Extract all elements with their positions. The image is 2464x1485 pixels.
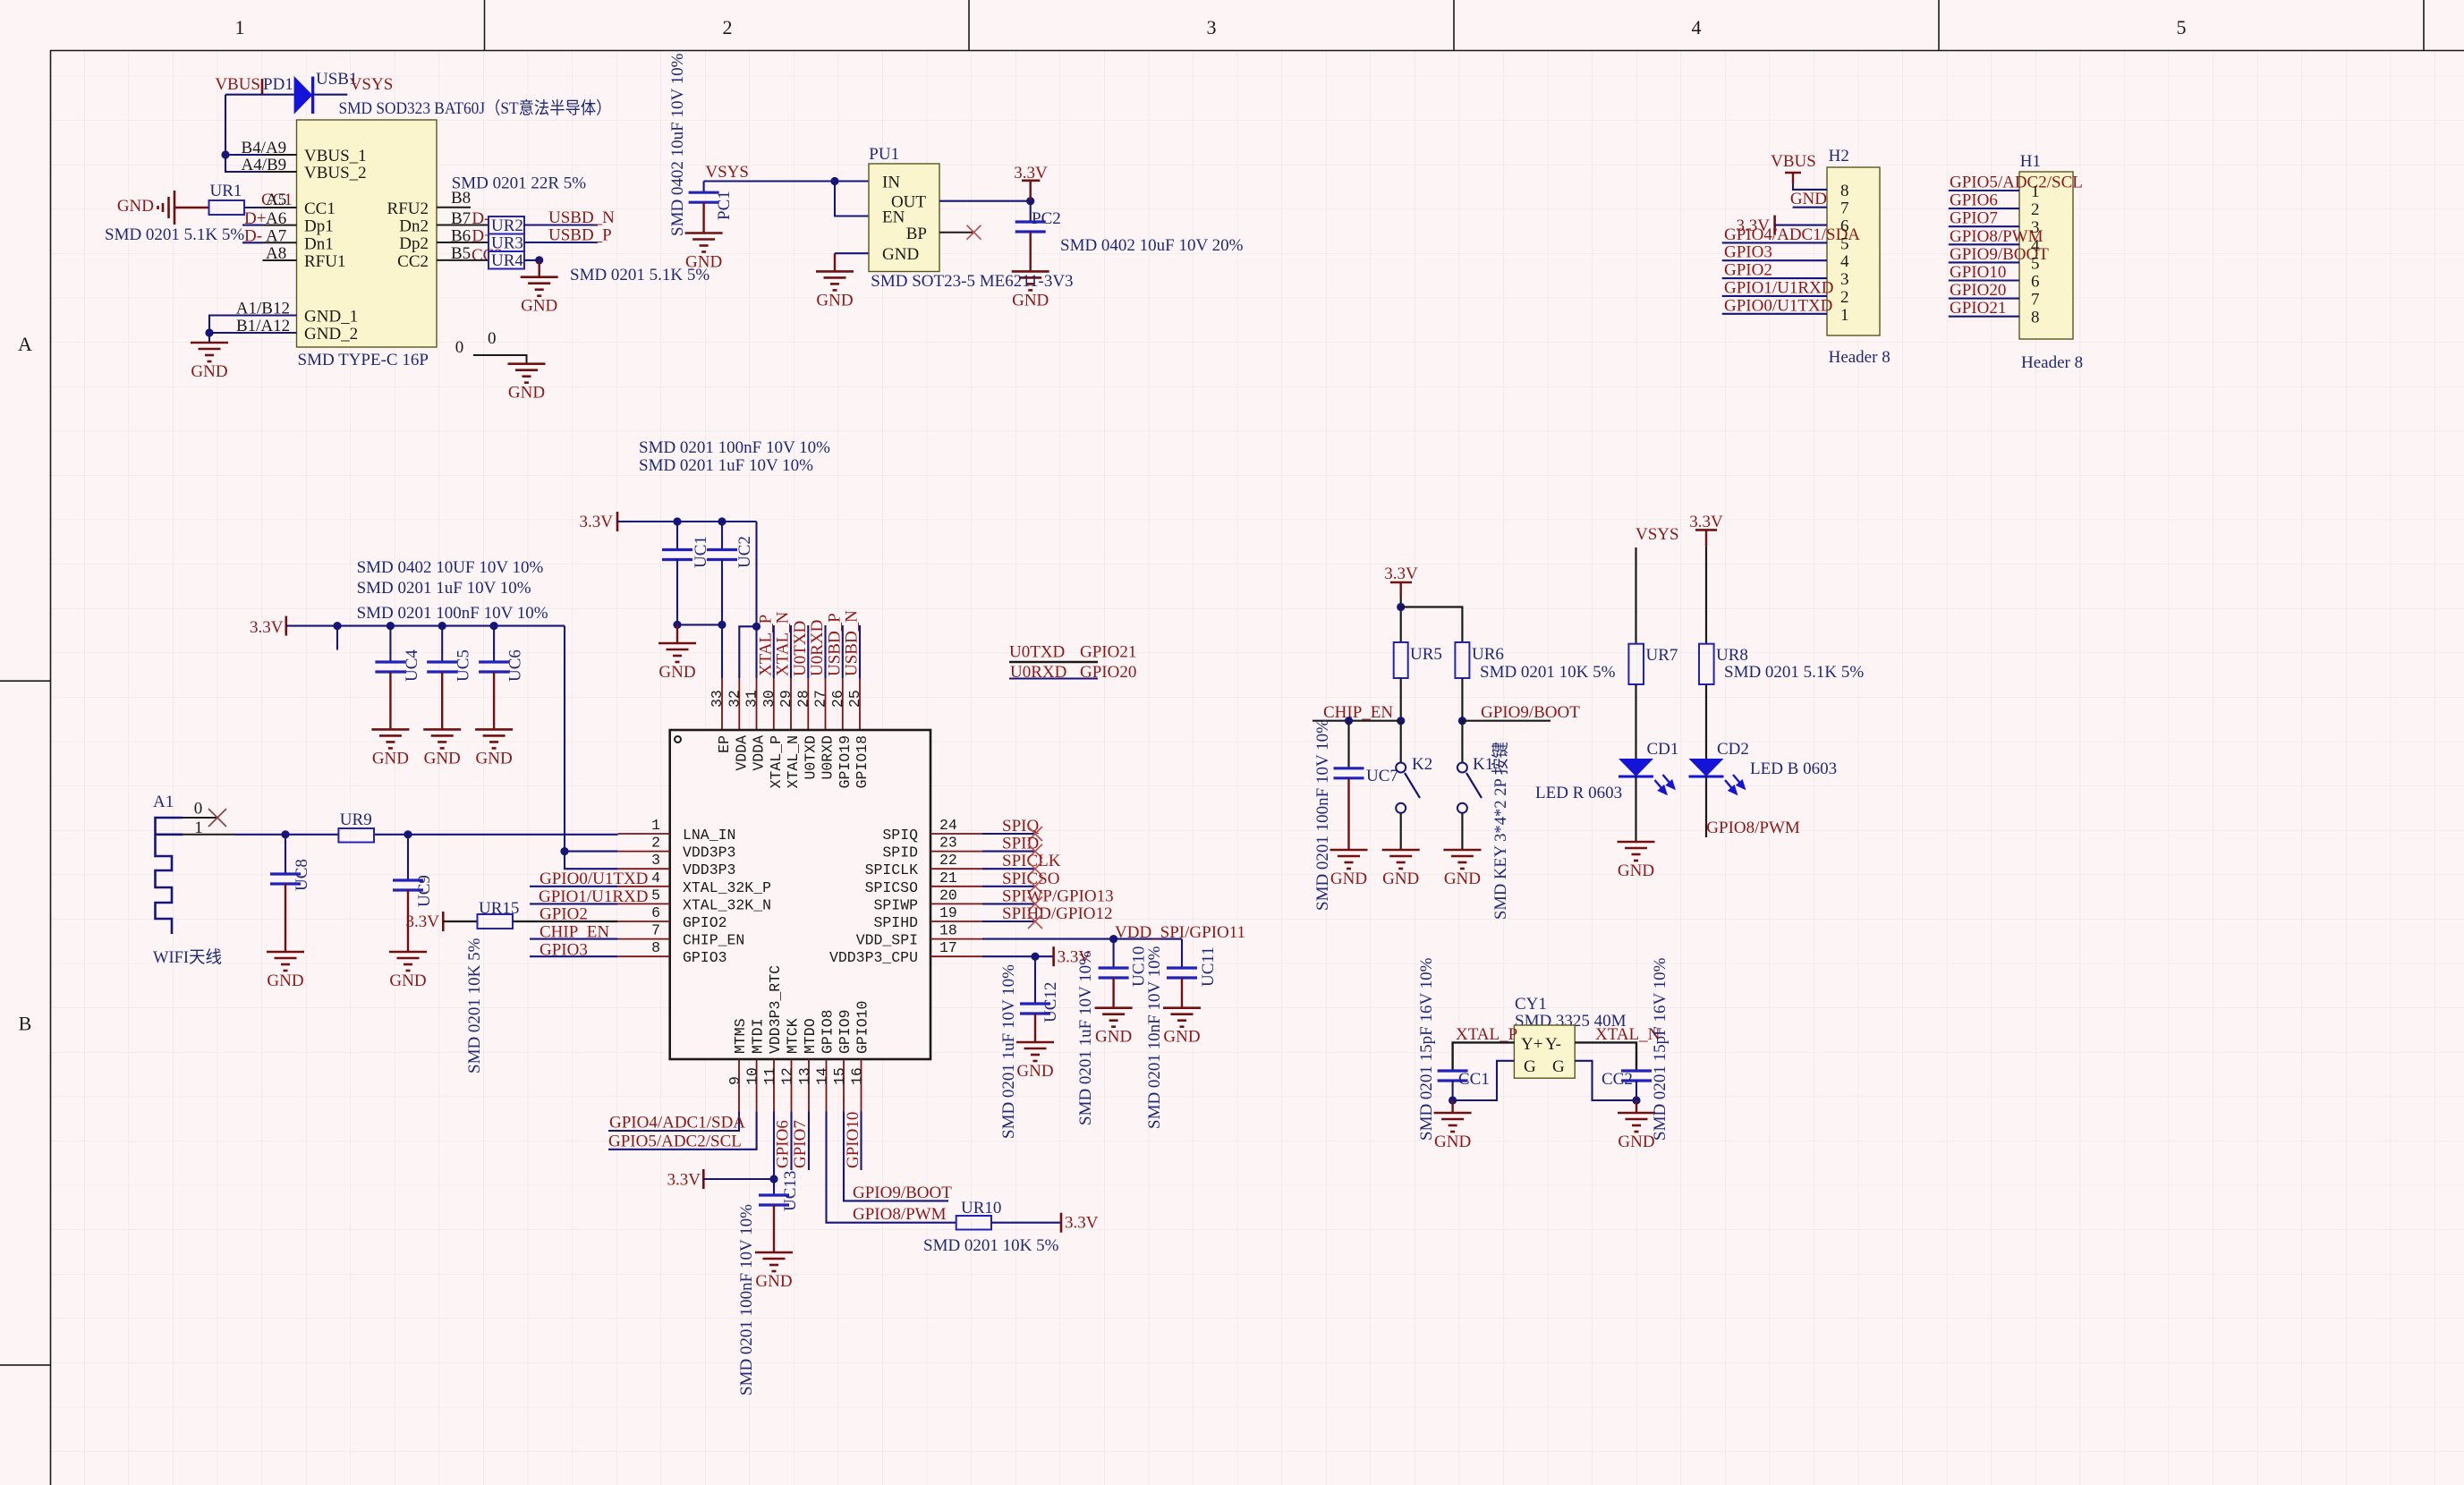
svg-text:SMD 0201 10nF 10V 10%: SMD 0201 10nF 10V 10% [1145, 946, 1164, 1129]
svg-text:A8: A8 [266, 244, 286, 263]
svg-text:2: 2 [651, 835, 660, 852]
svg-text:GND: GND [1163, 1028, 1200, 1047]
svg-text:Header 8: Header 8 [2021, 353, 2083, 372]
svg-text:VDD3P3_CPU: VDD3P3_CPU [829, 949, 918, 966]
resistor UR4 [489, 251, 524, 270]
svg-text:6: 6 [1840, 217, 1849, 236]
wire UR4 to ground [524, 256, 543, 276]
wire XTAL_P to CY1 [1453, 1042, 1515, 1071]
wire H1 pin 4 [1949, 243, 2019, 245]
svg-text:5: 5 [2031, 254, 2040, 273]
svg-text:19: 19 [939, 904, 957, 921]
svg-text:VBUS: VBUS [215, 75, 260, 94]
svg-text:D-: D- [244, 227, 262, 246]
wire EN [835, 182, 869, 216]
svg-text:6: 6 [651, 904, 660, 921]
svg-text:30: 30 [760, 690, 777, 708]
capacitor CC2 plates [1621, 1071, 1652, 1081]
power flag 3.3V at UR15 [406, 912, 444, 931]
svg-text:VDD_SPI: VDD_SPI [856, 932, 918, 949]
wire GND_1 GND_2 to ground [205, 316, 296, 344]
svg-text:GPIO0/U1TXD: GPIO0/U1TXD [1724, 296, 1832, 315]
ground UC12 [1016, 1042, 1054, 1081]
svg-text:BP: BP [906, 225, 927, 243]
svg-text:3.3V: 3.3V [580, 513, 614, 531]
svg-text:B4/A9: B4/A9 [242, 139, 287, 157]
svg-text:UC4: UC4 [403, 649, 421, 682]
svg-text:Dn2: Dn2 [399, 217, 429, 236]
wire GPIO10 from pin16 [844, 1112, 862, 1171]
svg-text:GPIO3: GPIO3 [683, 949, 727, 966]
capacitor UC10 [1113, 939, 1115, 968]
svg-text:XTAL_P: XTAL_P [756, 615, 775, 676]
svg-text:Dn1: Dn1 [304, 234, 334, 253]
svg-text:VSYS: VSYS [1636, 525, 1679, 544]
svg-text:XTAL_N: XTAL_N [785, 735, 802, 788]
svg-text:D+: D+ [244, 209, 266, 228]
ic U1 right pin names [829, 827, 918, 966]
svg-text:GPIO1/U1RXD: GPIO1/U1RXD [1724, 278, 1833, 297]
connector USB1 body [297, 120, 438, 347]
capacitor UC6 [493, 626, 495, 662]
svg-text:LED R 0603: LED R 0603 [1535, 784, 1622, 802]
wire Dn2 to UR2 [437, 225, 489, 226]
capacitor UC5 [441, 626, 443, 662]
power flag 3.3V at pin17 [1054, 946, 1092, 966]
svg-text:MTCK: MTCK [785, 1018, 802, 1054]
svg-text:CD1: CD1 [1647, 740, 1679, 759]
diode PD1 [294, 76, 313, 115]
svg-text:29: 29 [777, 690, 794, 708]
power flag 3.3V at UR5 [1384, 564, 1418, 595]
ground UC10 [1095, 1008, 1133, 1047]
ground K2 [1382, 850, 1420, 888]
wire antenna to LNA_IN [234, 830, 618, 838]
svg-text:24: 24 [939, 817, 957, 834]
ground UC9 [389, 952, 427, 990]
capacitor UC1 plates [662, 550, 692, 560]
PU1 pin names [882, 174, 927, 265]
svg-text:SPIHD: SPIHD [873, 914, 918, 931]
svg-text:UC6: UC6 [506, 649, 525, 682]
antenna pin 0 and no-connect [183, 800, 226, 827]
svg-text:UR10: UR10 [961, 1199, 1001, 1218]
svg-text:UR9: UR9 [340, 810, 372, 829]
svg-text:SPIWP/GPIO13: SPIWP/GPIO13 [1002, 887, 1114, 905]
wire H1 pin 6 [1949, 279, 2019, 281]
svg-text:GPIO10: GPIO10 [844, 1112, 862, 1168]
wire H2 pin7 [1793, 207, 1827, 208]
ground UC5 [423, 729, 461, 768]
svg-text:UR6: UR6 [1472, 645, 1504, 664]
svg-text:UR8: UR8 [1716, 646, 1748, 665]
svg-text:UC7: UC7 [1366, 767, 1398, 785]
svg-text:SMD 0201 5.1K 5%: SMD 0201 5.1K 5% [105, 225, 244, 244]
svg-text:GPIO9: GPIO9 [837, 1009, 854, 1054]
svg-text:20: 20 [939, 887, 957, 904]
svg-text:UR5: UR5 [1410, 645, 1442, 664]
svg-text:SMD 0402 10UF 10V 10%: SMD 0402 10UF 10V 10% [357, 558, 544, 577]
svg-text:GPIO21: GPIO21 [1950, 299, 2006, 318]
svg-text:H1: H1 [2020, 152, 2041, 171]
svg-text:GND: GND [1618, 861, 1654, 880]
svg-text:VDD3P3: VDD3P3 [683, 844, 735, 861]
ic U1 left pin stubs and numbers [618, 817, 670, 956]
capacitor UC8 [285, 835, 286, 874]
wire VDD3P3_CPU to 3.3V [982, 953, 1054, 961]
svg-text:GPIO8/PWM: GPIO8/PWM [1706, 819, 1800, 837]
svg-text:UR2: UR2 [491, 216, 523, 235]
ic U1 body [670, 730, 930, 1059]
svg-text:SMD 0402 10uF 10V 20%: SMD 0402 10uF 10V 20% [1060, 236, 1244, 255]
ground UC7 [1330, 850, 1368, 888]
svg-text:VDDA: VDDA [751, 735, 768, 771]
USB1 left pin stubs [263, 155, 297, 333]
svg-text:10: 10 [744, 1067, 761, 1085]
net label CHIP_EN at key [1313, 703, 1401, 725]
svg-text:A7: A7 [266, 227, 286, 246]
svg-text:RFU1: RFU1 [304, 252, 345, 271]
ground PC1 [685, 233, 723, 272]
svg-text:SMD 0201 10K 5%: SMD 0201 10K 5% [1480, 663, 1616, 682]
wire and net label SPIQ [982, 817, 1042, 841]
power flag VBUS at H2 [1771, 152, 1827, 190]
svg-text:LNA_IN: LNA_IN [683, 827, 735, 844]
svg-text:GPIO7: GPIO7 [791, 1120, 810, 1168]
svg-text:SMD SOT23-5 ME6211-3V3: SMD SOT23-5 ME6211-3V3 [871, 272, 1073, 291]
svg-text:SMD 0201 100nF 10V 10%: SMD 0201 100nF 10V 10% [639, 438, 830, 457]
svg-text:XTAL_32K_N: XTAL_32K_N [683, 896, 771, 913]
ic U1 pin1 mark [675, 736, 681, 742]
svg-text:SMD 0201 1uF 10V 10%: SMD 0201 1uF 10V 10% [639, 456, 813, 475]
svg-text:GND: GND [521, 297, 557, 316]
wire OUT to 3.3V [939, 197, 1034, 205]
svg-text:GND_2: GND_2 [304, 325, 358, 344]
wire stub at rail [336, 626, 338, 650]
wire 3.3V to UR5 UR6 [1397, 595, 1462, 642]
net label GPIO1/U1RXD at IC [530, 887, 648, 906]
ruler ticks top [485, 0, 2425, 50]
resistor UR2 [489, 216, 524, 235]
wire H2 pin 5 [1722, 242, 1827, 243]
svg-text:MTMS: MTMS [732, 1018, 749, 1054]
svg-text:3: 3 [1840, 270, 1849, 289]
svg-text:SPID: SPID [882, 844, 918, 861]
H2 pin numbers [1840, 182, 1849, 325]
wire H1 pin 3 [1949, 225, 2019, 227]
switch K2 [1396, 721, 1420, 850]
H1 pin numbers [2031, 182, 2040, 327]
svg-text:GND: GND [882, 245, 919, 264]
pin label B7 / net D- [451, 209, 489, 228]
resistor UR9 [338, 828, 374, 843]
svg-text:GND: GND [117, 197, 154, 216]
svg-text:CC2: CC2 [397, 252, 429, 271]
svg-text:VDD3P3_RTC: VDD3P3_RTC [767, 965, 784, 1054]
svg-text:1: 1 [651, 817, 660, 834]
power flag 3.3V at PU1 out [1014, 164, 1048, 201]
svg-text:U0TXD: U0TXD [791, 621, 810, 676]
wire H2 pin 2 [1722, 295, 1827, 297]
ground K1 [1443, 850, 1481, 888]
wire UR5 to CHIP_EN [1397, 678, 1405, 725]
svg-text:SMD 0201 1uF 10V 10%: SMD 0201 1uF 10V 10% [357, 579, 531, 598]
ground UC13 [755, 1252, 793, 1291]
svg-text:SMD 0201 100nF 10V 10%: SMD 0201 100nF 10V 10% [737, 1204, 756, 1396]
svg-text:GPIO5/ADC2/SCL: GPIO5/ADC2/SCL [1950, 174, 2083, 192]
svg-text:K2: K2 [1412, 755, 1432, 774]
wire B8 [437, 207, 471, 208]
wire GPIO6 from pin12 [774, 1112, 793, 1171]
wire and net label USBD_P at IC top [825, 613, 844, 678]
ground CD1 [1618, 842, 1655, 880]
svg-text:Dp1: Dp1 [304, 217, 334, 236]
net label CHIP_EN at IC [530, 923, 618, 942]
ground shield [508, 364, 546, 403]
net tie U0RXD GPIO20 [1009, 663, 1136, 682]
svg-text:VBUS_2: VBUS_2 [304, 164, 367, 182]
svg-text:RFU2: RFU2 [387, 199, 429, 218]
svg-text:U0RXD: U0RXD [820, 735, 837, 780]
svg-text:XTAL_P: XTAL_P [768, 735, 785, 789]
net label D- / pin A7 [244, 227, 286, 246]
svg-text:GPIO2: GPIO2 [683, 914, 727, 931]
ground CC1 [1434, 1113, 1472, 1151]
wire H1 pin 8 [1949, 316, 2019, 318]
svg-text:5: 5 [1840, 234, 1849, 253]
wire 3.3V to UR15 [443, 921, 477, 922]
capacitor PC1 plates [689, 192, 719, 233]
power flag 3.3V at H2 pin6 [1737, 216, 1827, 235]
svg-text:8: 8 [1840, 182, 1849, 200]
svg-text:UC13: UC13 [781, 1171, 800, 1211]
svg-text:CY1: CY1 [1515, 995, 1547, 1014]
wire UR6 to GPIO9/BOOT [1458, 678, 1551, 725]
wire 3.3V down to VDDA pins [739, 522, 760, 678]
power flag 3.3V at UC13 [667, 1169, 704, 1190]
svg-text:USBD_P: USBD_P [548, 226, 612, 245]
svg-text:GND: GND [755, 1272, 792, 1291]
svg-text:31: 31 [743, 690, 760, 708]
svg-text:SMD 0201 5.1K 5%: SMD 0201 5.1K 5% [1724, 663, 1864, 682]
svg-text:GPIO9/BOOT: GPIO9/BOOT [853, 1184, 952, 1202]
svg-text:XTAL_P: XTAL_P [1456, 1025, 1517, 1044]
antenna pin 1 [183, 819, 234, 837]
svg-text:UC12: UC12 [1041, 982, 1060, 1023]
wire UR15 to GPIO2 pin [513, 921, 618, 922]
ground UC8 [267, 952, 304, 990]
svg-text:3.3V: 3.3V [1689, 513, 1723, 531]
svg-text:UC9: UC9 [415, 875, 434, 907]
svg-text:VBUS: VBUS [1771, 152, 1816, 171]
wire PU1 GND pin to ground [835, 253, 869, 271]
power flag VBUS [215, 75, 262, 95]
wire H1 pin 7 [1949, 298, 2019, 300]
svg-text:1: 1 [194, 819, 203, 837]
svg-text:22: 22 [939, 852, 957, 869]
svg-text:A4/B9: A4/B9 [242, 156, 287, 174]
ground UC4 [371, 729, 409, 768]
svg-text:SMD TYPE-C 16P: SMD TYPE-C 16P [298, 351, 429, 369]
svg-text:SPICLK: SPICLK [865, 861, 919, 878]
svg-text:A5: A5 [266, 191, 286, 209]
ground UC6 [475, 729, 513, 768]
led CD2 [1689, 759, 1745, 793]
ic U1 bottom pin stubs and numbers [726, 1059, 866, 1112]
capacitor UC2 [721, 522, 723, 550]
svg-text:GPIO19: GPIO19 [837, 735, 854, 788]
capacitor UC2 plates [707, 550, 737, 560]
svg-text:VDD3P3: VDD3P3 [683, 861, 735, 878]
svg-text:GPIO18: GPIO18 [854, 735, 871, 788]
svg-text:SMD SOD323 BAT60J（ST意法半导体）: SMD SOD323 BAT60J（ST意法半导体） [339, 98, 612, 118]
capacitor UC12 plates [1020, 1004, 1050, 1042]
svg-text:3.3V: 3.3V [1065, 1214, 1099, 1233]
svg-text:LED B 0603: LED B 0603 [1750, 759, 1837, 778]
svg-text:GND: GND [1016, 1062, 1053, 1081]
svg-text:MTDI: MTDI [750, 1018, 767, 1054]
svg-text:U0RXD: U0RXD [808, 620, 827, 676]
capacitor UC7 plates [1334, 768, 1364, 850]
svg-text:UC1: UC1 [692, 536, 710, 568]
capacitor UC5 plates [427, 662, 457, 729]
svg-text:1: 1 [2031, 182, 2040, 201]
svg-text:6: 6 [2031, 273, 2040, 292]
wire Dp1 [242, 225, 263, 226]
svg-text:SPICSO: SPICSO [865, 879, 919, 896]
resistor UR7 [1628, 644, 1644, 684]
net label GPIO3 at IC [530, 940, 618, 959]
svg-text:4: 4 [1692, 16, 1702, 38]
svg-text:GND: GND [372, 749, 409, 768]
wire VSYS to IN [704, 177, 869, 185]
wire and net label SPID [982, 835, 1042, 859]
svg-text:SPIQ: SPIQ [882, 827, 918, 844]
svg-text:CC1: CC1 [304, 199, 336, 218]
svg-text:VDD_SPI/GPIO11: VDD_SPI/GPIO11 [1115, 923, 1245, 942]
capacitor UC8 plates [270, 874, 301, 952]
wire CC2 to UR4 [437, 259, 489, 261]
capacitor UC10 plates [1099, 968, 1129, 1008]
svg-text:3: 3 [1207, 16, 1217, 38]
CY1 pin names [1521, 1035, 1565, 1076]
svg-text:3.3V: 3.3V [1058, 948, 1092, 967]
svg-text:GPIO10: GPIO10 [1950, 263, 2006, 282]
svg-text:28: 28 [794, 690, 811, 708]
svg-text:26: 26 [829, 690, 846, 708]
IC top pin numbers [709, 690, 863, 708]
svg-text:GPIO3: GPIO3 [1724, 243, 1772, 262]
wire and net label XTAL_N at IC top [774, 611, 793, 678]
net tie U0TXD GPIO21 [1009, 643, 1136, 663]
wire H2 pin 3 [1722, 277, 1827, 279]
svg-text:GPIO2: GPIO2 [540, 905, 588, 924]
wire GPIO8/PWM from pin14 to UR10 [827, 1112, 956, 1223]
wire CC2 to ground and G pin [1575, 1061, 1640, 1113]
ic U1 left pin names [683, 827, 771, 966]
svg-text:3.3V: 3.3V [406, 912, 440, 931]
svg-text:21: 21 [939, 870, 957, 887]
wire VDD_SPI [982, 935, 1182, 968]
svg-text:SMD 0201 100nF 10V 10%: SMD 0201 100nF 10V 10% [357, 604, 548, 623]
svg-text:SMD 0402 10uF 10V 10%: SMD 0402 10uF 10V 10% [668, 53, 687, 236]
svg-text:1: 1 [1840, 306, 1849, 325]
wire and net label U0RXD at IC top [808, 620, 827, 678]
net label D+ / pin A6 [244, 209, 286, 228]
svg-text:27: 27 [812, 690, 829, 708]
svg-text:VBUS_1: VBUS_1 [304, 147, 367, 165]
svg-text:3.3V: 3.3V [250, 618, 284, 637]
svg-text:UR7: UR7 [1646, 646, 1678, 665]
wire H1 pin 5 [1949, 261, 2019, 263]
switch K1 [1457, 721, 1482, 850]
svg-text:GPIO6: GPIO6 [1950, 191, 1998, 210]
wire and net label USBD_N at IC top [843, 610, 862, 678]
svg-text:GND: GND [685, 253, 722, 272]
ic U1 top pin names [716, 735, 871, 789]
resistor UR5 [1394, 642, 1408, 678]
svg-text:7: 7 [1840, 199, 1849, 218]
connector H2 body [1827, 167, 1880, 335]
ground UC11 [1163, 1008, 1201, 1047]
wire GPIO9/BOOT from pin15 [844, 1112, 948, 1201]
svg-text:UC8: UC8 [293, 859, 311, 891]
wire H2 pin 4 [1722, 259, 1827, 261]
wire and net label SPIWP/GPIO13 [982, 887, 1114, 911]
USB1 pin names [304, 147, 429, 344]
svg-text:3.3V: 3.3V [1384, 564, 1418, 583]
svg-text:Header 8: Header 8 [1829, 348, 1890, 367]
svg-text:GPIO5/ADC2/SCL: GPIO5/ADC2/SCL [608, 1132, 742, 1150]
svg-text:UR4: UR4 [491, 251, 523, 270]
svg-text:SMD 0201 22R 5%: SMD 0201 22R 5% [452, 174, 587, 193]
wire VBUS to diode [225, 94, 294, 96]
wire VSYS to UR7 [1635, 547, 1636, 644]
svg-text:GPIO2: GPIO2 [1724, 261, 1772, 280]
capacitor UC1 [676, 522, 678, 550]
pin label B6 / net D+ [451, 227, 494, 246]
svg-text:11: 11 [761, 1067, 778, 1085]
svg-text:GND: GND [1330, 870, 1367, 888]
wire 3.3V to VDD3P3_RTC [703, 1112, 777, 1184]
wire H1 pin 1 [1949, 190, 2019, 191]
svg-text:PU1: PU1 [869, 145, 899, 164]
wire and net label XTAL_P at IC top [756, 615, 775, 678]
svg-text:GND: GND [816, 291, 853, 310]
capacitor PC2 [1030, 201, 1032, 222]
svg-text:Y-: Y- [1545, 1035, 1561, 1054]
svg-text:GND: GND [1382, 870, 1419, 888]
svg-text:4: 4 [651, 870, 660, 887]
wire 3.3V to UR8 [1705, 547, 1707, 644]
svg-text:CHIP_EN: CHIP_EN [1323, 703, 1393, 722]
capacitor UC6 plates [479, 662, 509, 729]
svg-text:UC2: UC2 [735, 536, 754, 568]
wire and net label SPIHD/GPIO12 [982, 904, 1113, 929]
svg-text:14: 14 [814, 1067, 831, 1085]
ground PU1 [816, 271, 854, 310]
power flag 3.3V at UC1 [580, 512, 617, 531]
svg-text:3.3V: 3.3V [667, 1171, 701, 1190]
wire ground rail UC1 EP [673, 621, 726, 643]
svg-text:A6: A6 [266, 209, 286, 228]
wire 3.3V rail [286, 622, 565, 630]
svg-text:GPIO7: GPIO7 [1950, 209, 1998, 228]
svg-text:GND: GND [508, 384, 545, 403]
pin 0 labels [455, 329, 497, 357]
svg-text:CD2: CD2 [1717, 740, 1749, 759]
wire CC1 to ground and G pin [1449, 1061, 1514, 1113]
